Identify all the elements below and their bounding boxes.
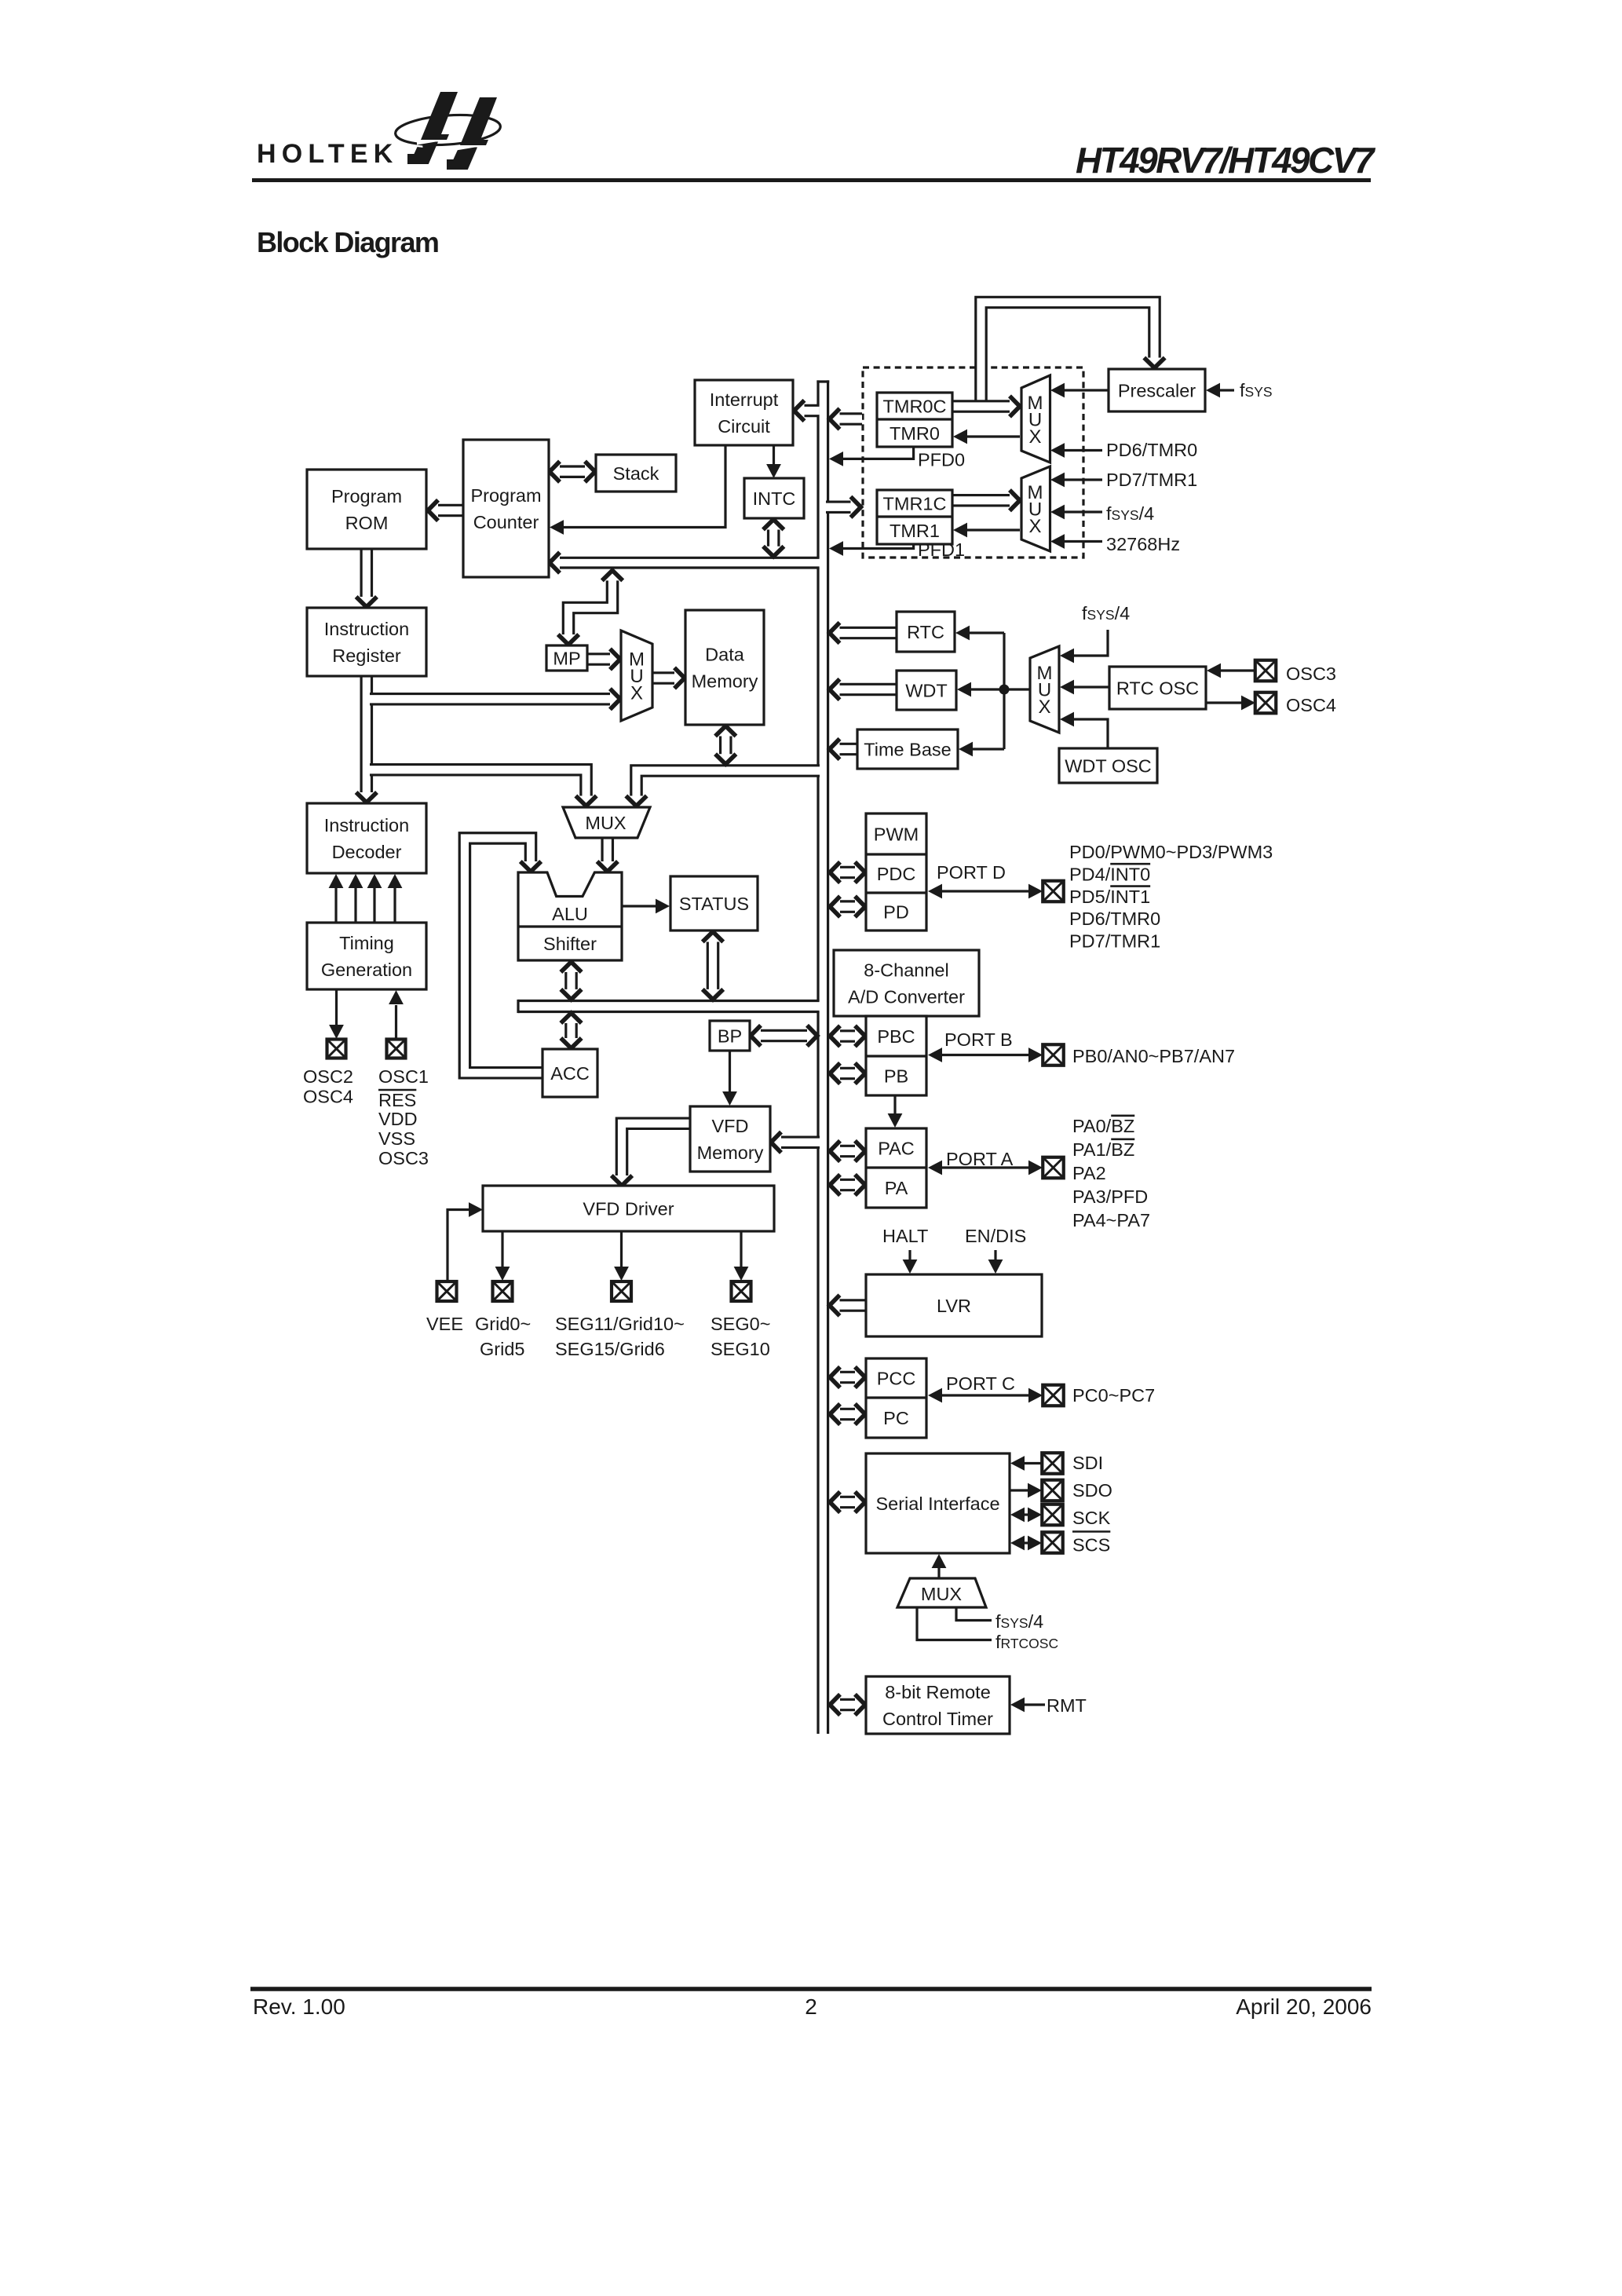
bus arrow STATUS to ALU bus [707, 941, 720, 992]
bus arrow BP to system bus [759, 1029, 809, 1043]
ALU internal bus end cap [517, 1000, 519, 1013]
svg-text:Instruction: Instruction [324, 815, 409, 835]
port B line [941, 1054, 1032, 1056]
data memory bus branch [637, 771, 820, 799]
svg-text:Generation: Generation [321, 960, 412, 980]
svg-text:Prescaler: Prescaler [1118, 380, 1196, 400]
pad VEE [437, 1281, 457, 1301]
bus arrow TMR0C to system bus [838, 412, 863, 426]
svg-text:RES: RES [378, 1090, 416, 1110]
bus branch to program counter (lower line) [554, 566, 820, 569]
wire PB to PAC [893, 1095, 896, 1116]
block RTC OSC [1109, 667, 1206, 709]
svg-text:OSC2: OSC2 [303, 1066, 353, 1087]
timer0 MUX [1021, 375, 1050, 462]
svg-text:OSC3: OSC3 [378, 1148, 429, 1168]
svg-text:PD7/TMR1: PD7/TMR1 [1069, 931, 1160, 952]
svg-text:Grid5: Grid5 [480, 1339, 524, 1359]
svg-text:VFD Driver: VFD Driver [583, 1198, 674, 1219]
operand MUX [563, 807, 650, 838]
svg-text:PD0/PWM0~PD3/PWM3: PD0/PWM0~PD3/PWM3 [1069, 842, 1273, 862]
block Timing Generation [307, 923, 426, 989]
wire clock MUX to serial interface [937, 1567, 940, 1578]
block ACC [542, 1049, 597, 1097]
bus arrow bus to VFD memory [780, 1135, 820, 1149]
bus arrow RTC to system bus [838, 627, 897, 640]
svg-text:PA0/BZ: PA0/BZ [1072, 1116, 1134, 1136]
wire HALT to LVR [908, 1250, 911, 1260]
svg-text:PDC: PDC [877, 864, 916, 884]
svg-text:April 20, 2006: April 20, 2006 [1236, 1994, 1372, 2019]
ALU internal bus (upper line) [518, 1000, 820, 1002]
svg-text:SDI: SDI [1072, 1453, 1103, 1473]
svg-text:X: X [1038, 696, 1050, 718]
bus arrow bus to PAC [838, 1145, 857, 1158]
feedback bus TMR0C to prescaler [981, 302, 1155, 404]
svg-text:TMR0C: TMR0C [883, 396, 947, 416]
svg-text:Data: Data [705, 644, 745, 664]
registers PBC PB [866, 1016, 926, 1095]
wire RTC OSC to RTC MUX [1074, 686, 1109, 688]
svg-text:HALT: HALT [882, 1226, 928, 1246]
pad OSC2 [327, 1040, 346, 1058]
svg-text:MUX: MUX [585, 813, 627, 833]
svg-text:PA3/PFD: PA3/PFD [1072, 1186, 1148, 1207]
ALU block with shifter [518, 872, 622, 960]
bus arrow bus to PBC [838, 1029, 857, 1043]
svg-text:Interrupt: Interrupt [710, 389, 779, 410]
pad SEG0 [732, 1281, 751, 1301]
bus arrow address MUX to data memory [652, 671, 676, 685]
pad SCS [1042, 1532, 1063, 1553]
pad OSC3 [1255, 660, 1277, 682]
svg-text:PB: PB [884, 1066, 908, 1086]
svg-text:EN/DIS: EN/DIS [965, 1226, 1026, 1246]
svg-text:PCC: PCC [877, 1368, 916, 1388]
svg-text:Time Base: Time Base [864, 739, 951, 759]
svg-text:Stack: Stack [613, 463, 659, 484]
registers TMR0C TMR0 [877, 393, 952, 447]
port A line [941, 1166, 1032, 1168]
svg-text:OSC1: OSC1 [378, 1066, 429, 1087]
block Prescaler [1109, 369, 1205, 411]
wire OSC3 to RTC OSC [1220, 669, 1255, 671]
svg-text:ACC: ACC [550, 1063, 590, 1084]
arrowhead into program counter [550, 520, 564, 535]
bus arrow VFD memory to VFD driver [622, 1124, 690, 1177]
bus TMR0C to timer0 MUX [952, 400, 1011, 413]
svg-text:Instruction: Instruction [324, 619, 409, 639]
svg-text:PWM: PWM [874, 824, 919, 844]
svg-text:PD4/INT0: PD4/INT0 [1069, 864, 1150, 884]
wire RMT input [1025, 1703, 1045, 1706]
block INTC [744, 478, 804, 518]
registers TMR1C TMR1 [877, 490, 952, 544]
block VFD Memory [690, 1106, 770, 1172]
bus arrow ALU bus to ACC [564, 1022, 578, 1040]
wire BP to VFD memory [729, 1051, 731, 1094]
svg-text:RTC OSC: RTC OSC [1116, 678, 1199, 698]
wire PFD0 to bus [842, 447, 914, 459]
junction node [999, 685, 1010, 695]
svg-text:STATUS: STATUS [679, 894, 749, 914]
svg-text:PD6/TMR0: PD6/TMR0 [1106, 440, 1197, 460]
block 8-Channel A/D Converter [834, 950, 979, 1016]
svg-text:PD5/INT1: PD5/INT1 [1069, 887, 1150, 907]
wire PFD1 to bus [842, 544, 914, 549]
block Program ROM [307, 470, 426, 549]
svg-text:WDT OSC: WDT OSC [1065, 755, 1152, 776]
svg-text:PFD1: PFD1 [918, 539, 965, 560]
bus arrow bus to PA [838, 1179, 857, 1192]
svg-text:MP: MP [553, 648, 580, 668]
svg-text:Rev. 1.00: Rev. 1.00 [253, 1994, 345, 2019]
svg-text:PORT B: PORT B [944, 1029, 1013, 1050]
wire fSYS/4 input to timer1 MUX [1065, 510, 1102, 513]
bus arrow bus to PDC [838, 866, 857, 879]
svg-text:Program: Program [470, 485, 541, 506]
svg-text:Timing: Timing [339, 933, 394, 953]
wire SDO output [1010, 1489, 1029, 1491]
address MUX [621, 631, 652, 721]
pad SDI [1042, 1453, 1063, 1474]
arrowhead PFD0 into bus [829, 452, 843, 466]
svg-text:PBC: PBC [877, 1026, 915, 1047]
block Program Counter [463, 440, 549, 577]
svg-text:SEG11/Grid10~: SEG11/Grid10~ [555, 1314, 685, 1334]
bus arrow INTC to bus branch [767, 528, 780, 548]
wire fRTCOSC to clock MUX [917, 1607, 992, 1640]
svg-text:Control Timer: Control Timer [882, 1709, 993, 1729]
svg-text:SCK: SCK [1072, 1508, 1111, 1528]
svg-text:Counter: Counter [473, 512, 539, 532]
serial clock MUX [897, 1578, 986, 1607]
svg-text:TMR0: TMR0 [890, 423, 940, 444]
svg-text:HT49RV7/HT49CV7: HT49RV7/HT49CV7 [1076, 140, 1376, 181]
svg-text:32768Hz: 32768Hz [1106, 534, 1180, 554]
wire EN/DIS to LVR [994, 1250, 996, 1260]
wire VEE to VFD driver [448, 1210, 472, 1282]
block Stack [596, 455, 676, 492]
svg-text:ROM: ROM [345, 513, 389, 533]
bus arrow time base to system bus [838, 743, 858, 756]
registers PCC PC [866, 1358, 926, 1438]
bus arrow bus to remote control timer [838, 1698, 857, 1712]
svg-text:8-bit Remote: 8-bit Remote [885, 1682, 991, 1702]
block 8-bit Remote Control Timer [866, 1676, 1010, 1734]
svg-text:Decoder: Decoder [332, 842, 402, 862]
bus arrow program counter to stack [558, 465, 586, 478]
svg-text:X: X [1028, 516, 1041, 537]
bus arrow LVR to system bus [838, 1299, 867, 1312]
svg-text:MUX: MUX [921, 1584, 963, 1604]
svg-text:OSC4: OSC4 [303, 1087, 353, 1107]
bus arrow program counter to program ROM [437, 504, 463, 517]
svg-text:Memory: Memory [692, 671, 758, 691]
wire VFD driver to Grid pads [501, 1231, 503, 1267]
svg-text:PD7/TMR1: PD7/TMR1 [1106, 470, 1197, 490]
wire timer0 MUX to TMR0 [967, 435, 1020, 437]
pad SEG11/Grid10 [612, 1281, 631, 1301]
svg-text:A/D Converter: A/D Converter [848, 986, 965, 1007]
svg-text:PA: PA [885, 1178, 908, 1198]
block MP [546, 645, 587, 671]
block WDT OSC [1059, 748, 1157, 783]
bus arrow ACC feedback loop to ALU [465, 838, 542, 1073]
wire VFD driver to SEG/Grid pads [620, 1231, 623, 1267]
header rule [252, 178, 1371, 182]
block Serial Interface [866, 1453, 1010, 1553]
pad PORT B [1043, 1044, 1064, 1066]
wire 32768Hz input [1065, 540, 1102, 543]
block VFD Driver [483, 1186, 774, 1231]
svg-text:Memory: Memory [697, 1143, 764, 1163]
bus arrow branch to MP [568, 579, 612, 636]
hollow arrowhead into program counter [550, 552, 560, 572]
wire trunk to RTC [970, 631, 1004, 634]
svg-text:PC: PC [883, 1408, 909, 1428]
block LVR [866, 1274, 1042, 1336]
wire interrupt circuit to INTC [773, 445, 775, 466]
svg-text:VSS: VSS [378, 1128, 415, 1149]
bus arrow system bus to timer1 [826, 500, 853, 514]
wire RTC OSC to OSC4 [1206, 701, 1241, 704]
wire fSYS/4 to RTC MUX [1074, 630, 1108, 656]
registers PWM PDC PD [866, 813, 926, 930]
svg-text:BP: BP [718, 1026, 742, 1046]
wire SCK line [1023, 1513, 1029, 1515]
system data bus (vertical double line) [816, 380, 829, 382]
bus arrow shifter to ALU bus [564, 971, 578, 991]
pad SDO [1042, 1480, 1063, 1501]
svg-text:Block Diagram: Block Diagram [257, 226, 438, 258]
bus arrow bus to PB [838, 1067, 857, 1080]
bus arrow data memory to data bus [719, 735, 732, 756]
svg-text:SCS: SCS [1072, 1535, 1110, 1556]
timing generation to instruction decoder wires [334, 888, 337, 923]
pad PORT A [1043, 1157, 1064, 1179]
pad OSC4 [1255, 693, 1277, 714]
bus arrow instruction register to operand MUX [370, 770, 586, 798]
bus arrow instruction register to address MUX [370, 693, 612, 706]
bus arrow into interrupt circuit [803, 404, 820, 418]
svg-text:PA2: PA2 [1072, 1163, 1106, 1183]
svg-text:X: X [630, 683, 643, 704]
svg-text:OSC3: OSC3 [1286, 664, 1336, 684]
bus arrow MP to address MUX [587, 653, 612, 666]
svg-text:RTC: RTC [907, 622, 944, 642]
RTC clock MUX [1030, 646, 1059, 733]
svg-text:X: X [1028, 426, 1041, 448]
wire OSC1 pad to timing generation [395, 1005, 397, 1039]
timer1 MUX [1021, 466, 1050, 551]
svg-text:HOLTEK: HOLTEK [257, 139, 398, 169]
bus arrow bus to serial interface [838, 1496, 857, 1509]
block WDT [897, 671, 956, 710]
svg-text:Program: Program [331, 486, 402, 506]
registers PAC PA [866, 1128, 926, 1208]
svg-text:Serial Interface: Serial Interface [875, 1493, 999, 1514]
timer section dashed box [863, 367, 1083, 558]
arrowhead PFD1 into bus [829, 541, 843, 556]
svg-text:SEG10: SEG10 [711, 1339, 770, 1359]
svg-text:ALU: ALU [552, 904, 588, 924]
svg-text:INTC: INTC [753, 488, 796, 509]
svg-text:VEE: VEE [426, 1314, 463, 1334]
svg-text:VDD: VDD [378, 1109, 418, 1129]
svg-text:PAC: PAC [878, 1138, 915, 1158]
pad SCK [1042, 1504, 1063, 1526]
wire interrupt circuit to program counter [562, 445, 725, 528]
svg-text:SEG15/Grid6: SEG15/Grid6 [555, 1339, 665, 1359]
svg-text:PC0~PC7: PC0~PC7 [1072, 1385, 1155, 1406]
bus arrow bus to PC [838, 1408, 857, 1421]
bus arrow bus to PCC [838, 1371, 857, 1384]
wire PD7/TMR1 input [1065, 478, 1102, 481]
svg-text:PFD0: PFD0 [918, 450, 965, 470]
bus arrow bus to PD [838, 900, 857, 913]
wire trunk to time base [973, 748, 1004, 750]
wire VFD driver to SEG pads [740, 1231, 742, 1267]
pad PORT D [1043, 881, 1064, 902]
wire timing generation to OSC2 pad [335, 989, 338, 1025]
svg-text:TMR1C: TMR1C [883, 493, 947, 514]
wire prescaler to timer0 MUX [1065, 389, 1109, 391]
svg-text:SDO: SDO [1072, 1480, 1112, 1501]
svg-text:SEG0~: SEG0~ [711, 1314, 770, 1334]
bus arrow instruction register to instruction decoder [360, 676, 373, 794]
wire PD6/TMR0 input [1065, 449, 1102, 452]
block Instruction Decoder [307, 803, 426, 873]
wire trunk to WDT [971, 688, 1004, 690]
svg-text:2: 2 [805, 1994, 817, 2019]
wire RTC MUX output trunk [1004, 688, 1030, 690]
bus arrow program ROM to instruction register [360, 548, 373, 598]
wire SCS line [1023, 1541, 1029, 1544]
bus arrow WDT to system bus [838, 683, 897, 696]
svg-text:RMT: RMT [1047, 1695, 1087, 1716]
port D line [941, 890, 1032, 892]
pad OSC1 [387, 1040, 406, 1058]
footer rule [250, 1987, 1372, 1991]
svg-text:PORT C: PORT C [946, 1373, 1015, 1394]
svg-text:PD6/TMR0: PD6/TMR0 [1069, 909, 1160, 929]
svg-text:PD: PD [883, 901, 909, 922]
svg-text:TMR1: TMR1 [890, 521, 940, 541]
svg-text:PB0/AN0~PB7/AN7: PB0/AN0~PB7/AN7 [1072, 1046, 1235, 1066]
svg-text:PORT A: PORT A [946, 1149, 1014, 1169]
bus TMR1C to timer1 MUX [952, 494, 1011, 507]
Holtek logo emblem [394, 92, 501, 170]
pad Grid [493, 1281, 513, 1301]
svg-text:VFD: VFD [712, 1116, 749, 1136]
pad PORT C [1043, 1385, 1064, 1406]
block BP [710, 1021, 750, 1051]
wire timer1 MUX to TMR1 [967, 528, 1020, 531]
svg-text:Register: Register [332, 645, 401, 666]
svg-text:Shifter: Shifter [543, 934, 597, 954]
svg-text:PORT D: PORT D [937, 862, 1006, 883]
wire ALU to STATUS [622, 905, 658, 907]
block RTC [897, 612, 955, 652]
wire SDI input [1025, 1462, 1042, 1464]
block Interrupt Circuit [695, 380, 793, 445]
bus arrow operand MUX to ALU [601, 838, 614, 863]
block Time Base [857, 729, 958, 769]
svg-text:OSC4: OSC4 [1286, 695, 1336, 715]
wire fSYS/4 to clock MUX [956, 1607, 992, 1621]
svg-text:PA1/BZ: PA1/BZ [1072, 1139, 1134, 1160]
wire fSYS to prescaler [1219, 389, 1234, 391]
wire WDT OSC to RTC MUX [1074, 719, 1108, 748]
svg-text:Grid0~: Grid0~ [475, 1314, 531, 1334]
svg-text:8-Channel: 8-Channel [864, 960, 948, 980]
port C line [941, 1394, 1032, 1396]
block STATUS [670, 876, 758, 930]
svg-text:LVR: LVR [937, 1296, 971, 1316]
svg-text:WDT: WDT [905, 680, 948, 700]
svg-text:PA4~PA7: PA4~PA7 [1072, 1210, 1150, 1230]
ALU internal bus (lower line) [518, 1011, 820, 1013]
block Instruction Register [307, 608, 426, 676]
bus branch to program counter (upper line) [554, 557, 820, 559]
svg-text:Circuit: Circuit [718, 416, 770, 437]
block Data Memory [685, 610, 764, 725]
